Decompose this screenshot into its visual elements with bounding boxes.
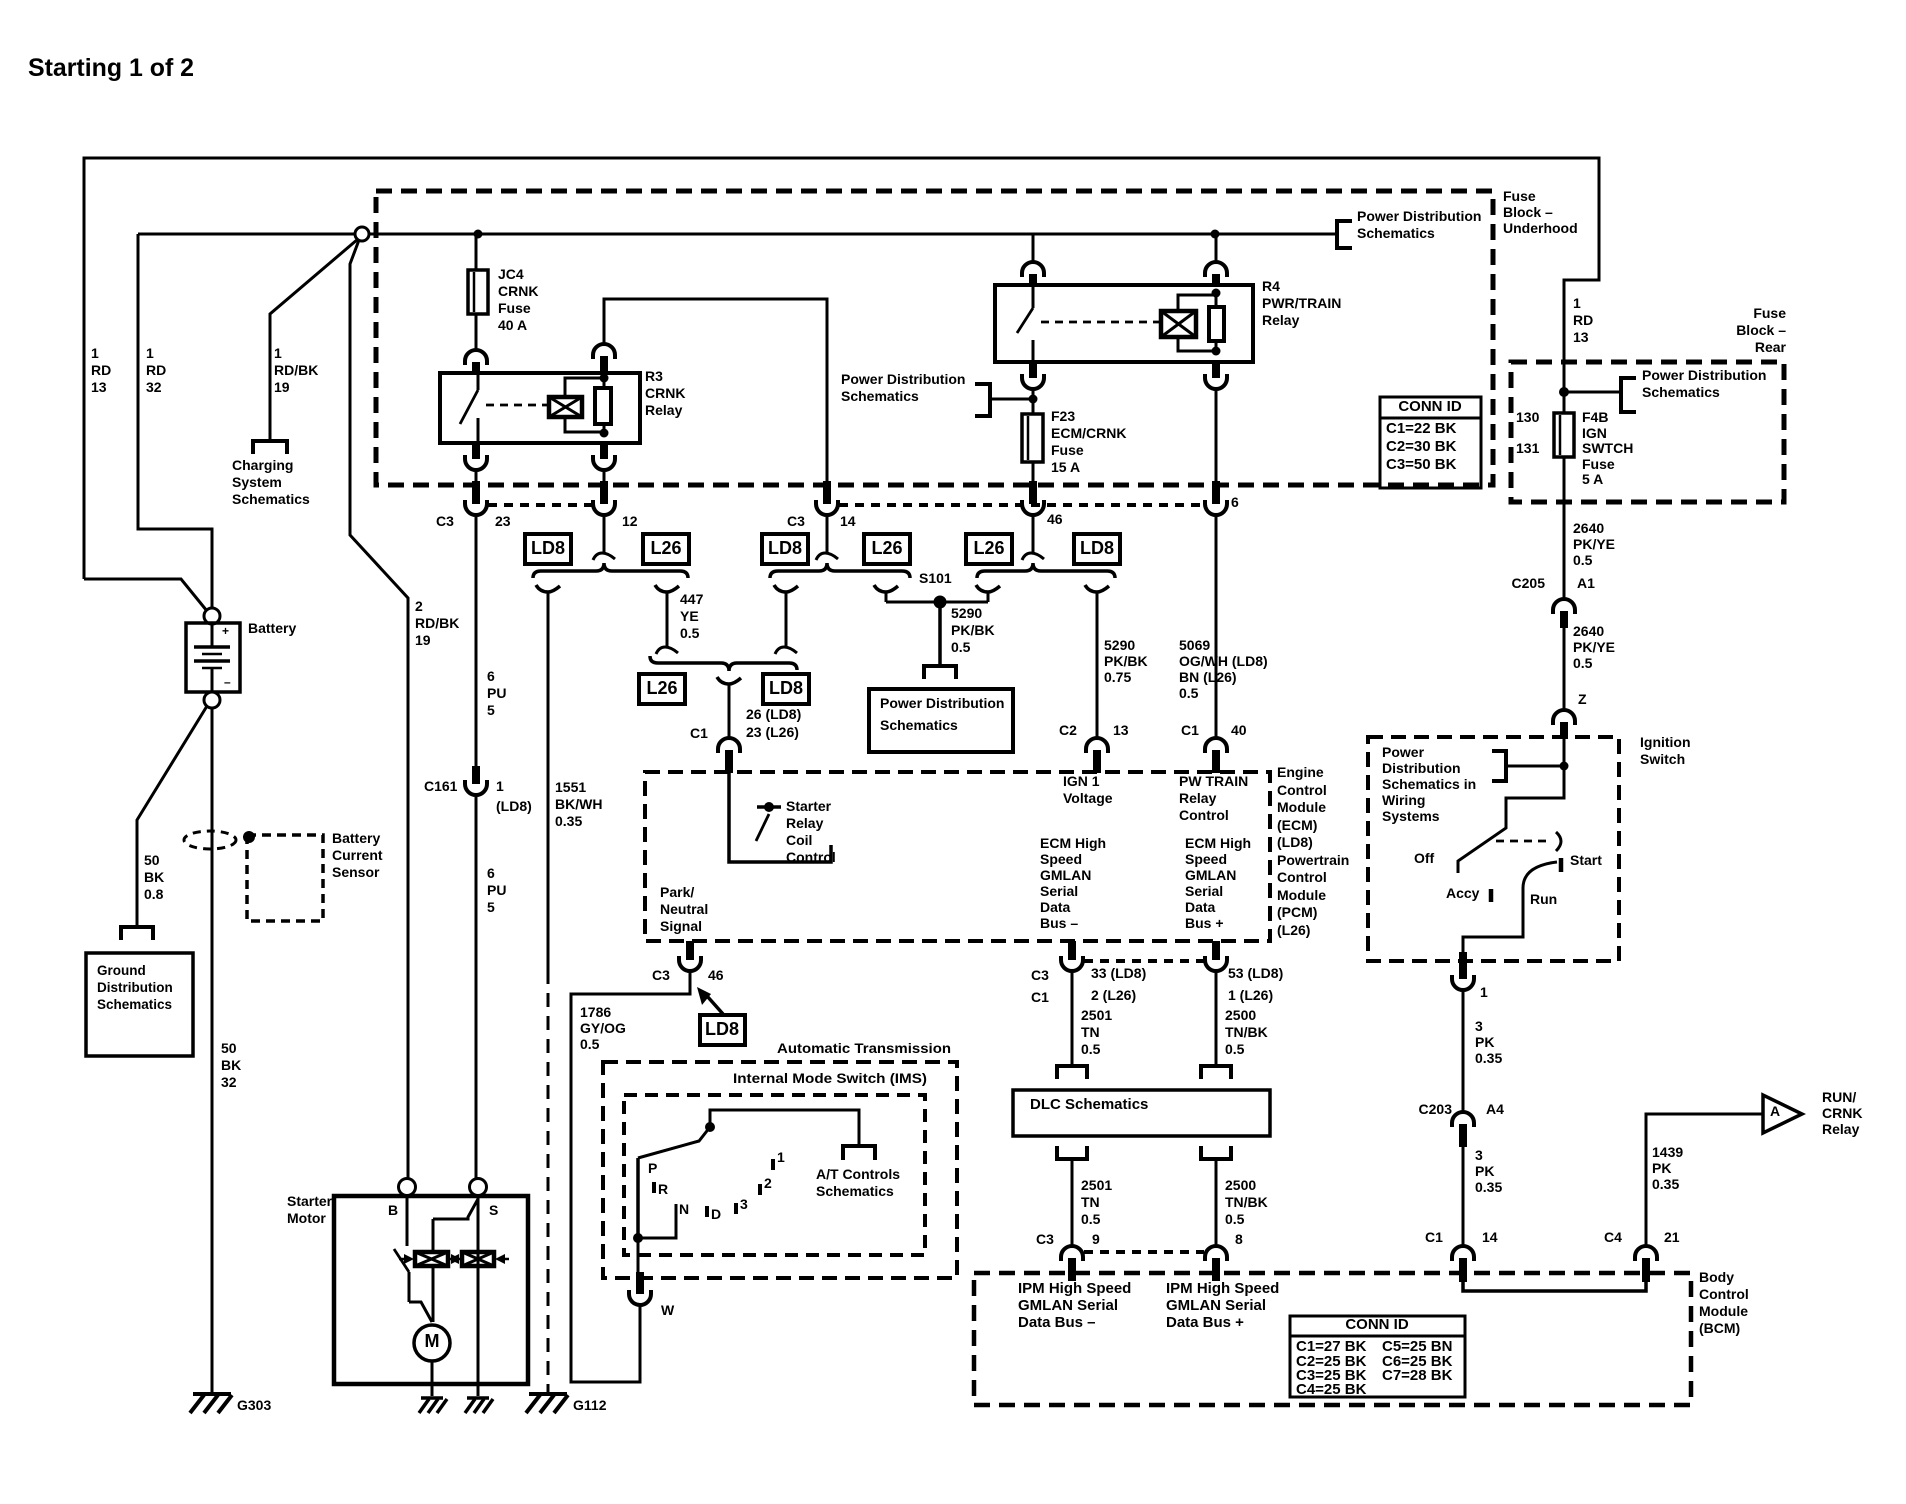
table CONN ID (underhood) (1380, 397, 1481, 488)
connector C161 (cup) (465, 780, 487, 795)
box Internal Mode Switch (dashed) (624, 1095, 925, 1255)
svg-text:ECM High: ECM High (1185, 835, 1251, 851)
box Starter Motor (334, 1196, 528, 1384)
svg-text:S101: S101 (919, 570, 952, 586)
svg-text:RD: RD (146, 362, 166, 378)
svg-text:2501: 2501 (1081, 1007, 1112, 1023)
svg-text:9: 9 (1092, 1231, 1100, 1247)
relay R3 switch (460, 373, 548, 443)
off-page bracket Ground Distribution (121, 927, 153, 940)
svg-text:32: 32 (146, 379, 162, 395)
svg-text:CONN ID: CONN ID (1398, 398, 1462, 415)
svg-text:2 (L26): 2 (L26) (1091, 987, 1136, 1003)
label Battery Current Sensor (332, 830, 383, 880)
ground starter motor S (465, 1384, 493, 1413)
svg-text:Module: Module (1277, 887, 1326, 903)
svg-text:6: 6 (487, 668, 495, 684)
tag box LD8 at x=762 (762, 534, 808, 564)
svg-text:Current: Current (332, 847, 383, 863)
svg-text:(LD8): (LD8) (496, 798, 532, 814)
label Engine Control Module (ECM) (1277, 764, 1349, 938)
svg-text:Schematics: Schematics (816, 1183, 894, 1199)
svg-text:A: A (1770, 1103, 1780, 1119)
connector W (pin) (636, 1272, 644, 1294)
label Battery (248, 620, 296, 636)
svg-text:TN/BK: TN/BK (1225, 1024, 1268, 1040)
svg-text:A1: A1 (1577, 575, 1595, 591)
svg-text:PWR/TRAIN: PWR/TRAIN (1262, 295, 1341, 311)
svg-text:Underhood: Underhood (1503, 220, 1578, 236)
connector C1 pin 40 (pin) (1212, 750, 1220, 773)
label Off (1414, 850, 1435, 866)
tag box L26 at x=643 (643, 534, 689, 564)
svg-text:TN/BK: TN/BK (1225, 1194, 1268, 1210)
label 1439 PK 0.35 (1652, 1144, 1683, 1192)
svg-text:OG/WH (LD8): OG/WH (LD8) (1179, 653, 1268, 669)
brace merge to C1 (650, 656, 797, 671)
label 33 (LD8) 2 (L26) (1091, 965, 1146, 1003)
svg-text:Schematics in: Schematics in (1382, 776, 1476, 792)
svg-text:CRNK: CRNK (498, 283, 538, 299)
wire pin 12 tail (593, 515, 615, 560)
svg-text:50: 50 (221, 1040, 237, 1056)
label C3 C1 (dlc) (1031, 967, 1049, 1005)
label C203 A4 (1419, 1101, 1505, 1117)
svg-text:26 (LD8): 26 (LD8) (746, 706, 801, 722)
wire 1 RD/BK 19 to charging system (270, 239, 358, 441)
connector R4 pin87 (cup) (1022, 374, 1044, 389)
svg-text:Control: Control (786, 849, 836, 865)
connector C4 pin 21 (pin) (1642, 1258, 1650, 1282)
ground G303 (190, 1394, 271, 1413)
svg-text:53 (LD8): 53 (LD8) (1228, 965, 1283, 981)
goalpost DLC bottom left (1057, 1146, 1087, 1159)
svg-text:C161: C161 (424, 778, 458, 794)
svg-text:C4: C4 (1604, 1229, 1622, 1245)
connector R4 coil out (pin) (1212, 362, 1220, 378)
svg-text:LD8: LD8 (769, 678, 803, 698)
wire R3 coil to block edge (603, 470, 606, 481)
starter S blade (433, 1199, 478, 1252)
svg-text:1: 1 (1480, 984, 1488, 1000)
svg-text:Automatic Transmission: Automatic Transmission (777, 1040, 951, 1056)
ignition switch blade (1458, 766, 1564, 873)
tag box LD8 with arrow (697, 987, 745, 1045)
wire F23 to block edge (1032, 462, 1035, 481)
connector R3 coil feed (cup) (593, 344, 615, 359)
label Power Distribution Schematics (F23) (841, 371, 965, 404)
svg-text:1: 1 (91, 345, 99, 361)
label Z (1578, 691, 1587, 707)
connector C203 (cup) (1452, 1112, 1474, 1127)
svg-text:Relay: Relay (786, 815, 824, 831)
relay R4 coil resistor (1209, 289, 1224, 356)
svg-text:Fuse: Fuse (498, 300, 531, 316)
label Power Distribution Schematics (top) (1357, 208, 1481, 241)
table CONN ID (BCM) (1290, 1316, 1465, 1398)
connector R4 pin87 (pin) (1029, 362, 1037, 378)
label 23 (495, 513, 511, 529)
svg-text:G303: G303 (237, 1397, 271, 1413)
svg-text:System: System (232, 474, 282, 490)
junction R4 coil feed (1211, 230, 1220, 239)
svg-text:0.5: 0.5 (1573, 655, 1593, 671)
relay R4 coil (1161, 295, 1215, 351)
connector C3 pin 14 (pin) (823, 481, 831, 504)
wire pin 14 tail (816, 515, 838, 560)
starter terminal B (399, 1179, 416, 1196)
label JC4 CRNK Fuse 40 A (498, 266, 538, 333)
node S101 (886, 596, 988, 609)
svg-text:Z: Z (1578, 691, 1587, 707)
svg-text:C4=25 BK: C4=25 BK (1296, 1381, 1367, 1398)
svg-text:L26: L26 (646, 678, 677, 698)
title (28, 54, 194, 82)
svg-text:6: 6 (1231, 494, 1239, 510)
svg-text:C205: C205 (1512, 575, 1546, 591)
svg-text:Accy: Accy (1446, 885, 1480, 901)
ims labels (648, 1149, 785, 1222)
fuse F4B IGN SWTCH 5A (1554, 413, 1574, 457)
box Power Distribution Schematics (S101) (869, 689, 1013, 752)
svg-text:CONN ID: CONN ID (1345, 1316, 1409, 1333)
svg-text:Motor: Motor (287, 1210, 326, 1226)
svg-text:Schematics: Schematics (841, 388, 919, 404)
svg-text:Fuse: Fuse (1051, 442, 1084, 458)
connector C3 pin 23 (pin) (472, 481, 480, 504)
label C3 9 (1036, 1231, 1100, 1247)
connector C3 pin 14 (cup) (816, 500, 838, 515)
connector line BCM (dotted) (1084, 1250, 1204, 1254)
starter winding 2 (446, 1252, 509, 1266)
svg-text:0.5: 0.5 (1225, 1041, 1245, 1057)
svg-text:23: 23 (495, 513, 511, 529)
ground G112 (526, 1394, 607, 1413)
svg-text:IPM High Speed: IPM High Speed (1018, 1280, 1131, 1297)
run/crnk relay triangle (1763, 1095, 1802, 1133)
svg-text:LD8: LD8 (531, 538, 565, 558)
svg-text:M: M (425, 1331, 440, 1351)
svg-text:L26: L26 (650, 538, 681, 558)
svg-text:LD8: LD8 (1080, 538, 1114, 558)
svg-text:Control: Control (1699, 1286, 1749, 1302)
svg-text:Relay: Relay (1262, 312, 1300, 328)
junction JC4 feed (474, 230, 483, 239)
svg-text:P: P (648, 1160, 657, 1176)
brace splice LD8/L26 (pin 14) (770, 563, 910, 578)
svg-text:Bus +: Bus + (1185, 915, 1224, 931)
wire 2501 TN upper (1071, 971, 1074, 1065)
svg-text:Battery: Battery (332, 830, 380, 846)
svg-text:CRNK: CRNK (1822, 1105, 1862, 1121)
svg-text:PW TRAIN: PW TRAIN (1179, 773, 1248, 789)
svg-text:Charging: Charging (232, 457, 293, 473)
label C1 14 (1425, 1229, 1498, 1245)
svg-text:RD/BK: RD/BK (415, 615, 459, 631)
label A/T Controls Schematics (816, 1166, 900, 1199)
connector C161 (pin) (472, 766, 480, 784)
svg-text:Fuse: Fuse (1753, 305, 1786, 321)
svg-text:3: 3 (1475, 1018, 1483, 1034)
svg-text:S: S (489, 1202, 498, 1218)
svg-text:2500: 2500 (1225, 1007, 1256, 1023)
wire 1 RD 32 (138, 234, 212, 608)
connector R4 pin30 (pin) (1029, 274, 1037, 286)
label 1 RD 13 (right) (1573, 295, 1593, 345)
ims contact R (652, 1182, 656, 1193)
wire battery positive from outer loop (84, 579, 207, 611)
label C3 (left) (436, 513, 454, 529)
motor M (414, 1325, 450, 1361)
svg-text:15 A: 15 A (1051, 459, 1080, 475)
svg-text:2: 2 (764, 1175, 772, 1191)
node splice (open) on bus (355, 227, 369, 241)
label Charging System Schematics (232, 457, 310, 507)
svg-text:C1: C1 (1031, 989, 1049, 1005)
label C2 13 (1059, 722, 1129, 738)
starter S wire (477, 1196, 480, 1384)
label Fuse Block - Underhood (1503, 188, 1578, 236)
svg-text:Off: Off (1414, 850, 1435, 866)
svg-text:Control: Control (1277, 869, 1327, 885)
svg-text:RUN/: RUN/ (1822, 1089, 1856, 1105)
wire 6 PU 5 (C161 to starter S) (475, 795, 478, 1178)
svg-text:C1=22 BK: C1=22 BK (1386, 420, 1457, 437)
svg-text:PK: PK (1475, 1163, 1494, 1179)
wire pnp branch (LD8) (774, 585, 798, 654)
svg-text:46: 46 (1047, 511, 1063, 527)
svg-text:Starter: Starter (786, 798, 832, 814)
bcm internal link (1463, 1282, 1646, 1291)
svg-text:0.5: 0.5 (951, 639, 971, 655)
svg-text:LD8: LD8 (768, 538, 802, 558)
svg-text:C3: C3 (436, 513, 454, 529)
svg-text:PK: PK (1652, 1160, 1671, 1176)
svg-text:13: 13 (1573, 329, 1589, 345)
off-page bracket to Power Distribution Schematics (top) (1337, 221, 1352, 248)
svg-text:Signal: Signal (660, 918, 702, 934)
ignition Run output (1463, 888, 1523, 952)
box ECM (dashed) (645, 772, 1270, 941)
connector pin 12 (pin) (600, 481, 608, 504)
wire 2500 TN/BK upper (1215, 971, 1218, 1065)
ims wiper and bus (633, 1110, 859, 1243)
connector pin 12 (cup) (593, 500, 615, 515)
svg-text:2640: 2640 (1573, 520, 1604, 536)
svg-text:D: D (711, 1206, 721, 1222)
svg-text:0.5: 0.5 (1573, 552, 1593, 568)
connector R4 coil feed (pin) (1212, 274, 1220, 287)
connector C205 (pin) (1560, 611, 1568, 628)
svg-text:Control: Control (1277, 782, 1327, 798)
svg-text:14: 14 (1482, 1229, 1498, 1245)
svg-text:Starter: Starter (287, 1193, 333, 1209)
ignition feed (1560, 739, 1569, 771)
svg-text:19: 19 (274, 379, 290, 395)
svg-text:2640: 2640 (1573, 623, 1604, 639)
starter winding1 tail (432, 1266, 435, 1322)
battery positive terminal (204, 608, 220, 624)
svg-text:TN: TN (1081, 1024, 1100, 1040)
wire 5290 PK/BK 0.75 (1085, 585, 1109, 738)
svg-text:8: 8 (1235, 1231, 1243, 1247)
label 6 (1231, 494, 1239, 510)
svg-text:Block –: Block – (1736, 322, 1786, 338)
label 3 PK 0.35 (upper) (1475, 1018, 1502, 1066)
wire 2 RD/BK 19 to starter motor B (350, 240, 408, 1178)
svg-text:Power Distribution: Power Distribution (841, 371, 965, 387)
label PW TRAIN Relay Control (1179, 773, 1248, 823)
starter solenoid switch (394, 1249, 432, 1322)
relay R4 switch (1017, 286, 1160, 362)
wire pin 46 tail (1022, 515, 1044, 560)
label Power Distribution Schematics in Wiring Systems (1382, 744, 1476, 824)
label 2501 TN 0.5 (lower) (1081, 1177, 1112, 1227)
label ECM High Speed GMLAN Serial Data Bus - (1040, 835, 1106, 931)
wire 3 PK 0.35 (upper) (1462, 990, 1465, 1112)
connector C1 ECM (cup) (718, 738, 740, 753)
svg-text:Distribution: Distribution (97, 980, 173, 995)
wire 447 YE 0.5 (655, 585, 679, 654)
svg-text:12: 12 (622, 513, 638, 529)
svg-text:3: 3 (1475, 1147, 1483, 1163)
svg-text:Schematics: Schematics (232, 491, 310, 507)
ims contact D (705, 1206, 709, 1217)
ignition Run arc (1523, 862, 1557, 907)
svg-text:50: 50 (144, 852, 160, 868)
svg-text:Data Bus –: Data Bus – (1018, 1314, 1096, 1331)
label C1 (ECM) (690, 725, 708, 741)
wire bus to R4 coil (1215, 234, 1218, 262)
svg-text:ECM/CRNK: ECM/CRNK (1051, 425, 1126, 441)
svg-text:0.35: 0.35 (555, 813, 582, 829)
connector R4 coil out (cup) (1205, 374, 1227, 389)
svg-text:Sensor: Sensor (332, 864, 380, 880)
wire brace to C1 (717, 677, 741, 738)
svg-text:14: 14 (840, 513, 856, 529)
svg-text:Body: Body (1699, 1269, 1734, 1285)
svg-text:BK: BK (144, 869, 164, 885)
svg-text:Module: Module (1699, 1303, 1748, 1319)
svg-text:32: 32 (221, 1074, 237, 1090)
svg-text:0.5: 0.5 (1081, 1041, 1101, 1057)
wire R3 coil feed from pin 14 column (604, 299, 827, 481)
connector C203 (pin) (1459, 1124, 1467, 1147)
svg-text:Internal Mode Switch (IMS): Internal Mode Switch (IMS) (733, 1070, 927, 1086)
svg-text:B: B (388, 1202, 398, 1218)
connector C3 46 out (cup) (679, 956, 701, 971)
junction F23 node (1029, 395, 1038, 404)
label C1 40 (1181, 722, 1247, 738)
svg-text:Distribution: Distribution (1382, 760, 1461, 776)
svg-text:–: – (224, 675, 231, 689)
connector C3/C1 dlc- (pin) (1068, 941, 1076, 960)
svg-text:5290: 5290 (1104, 637, 1135, 653)
svg-text:Neutral: Neutral (660, 901, 708, 917)
starter terminal S (470, 1179, 487, 1196)
svg-text:Power Distribution: Power Distribution (880, 695, 1004, 711)
svg-text:(L26): (L26) (1277, 922, 1310, 938)
label 1786 GY/OG 0.5 (580, 1004, 626, 1052)
fuse F23 ECM/CRNK 15A (1022, 414, 1043, 462)
svg-text:Ignition: Ignition (1640, 734, 1691, 750)
label 8 (1235, 1231, 1243, 1247)
svg-text:Data Bus +: Data Bus + (1166, 1314, 1244, 1331)
svg-text:40 A: 40 A (498, 317, 527, 333)
label 1 RD/BK 19 (274, 345, 318, 395)
svg-text:PK/YE: PK/YE (1573, 639, 1615, 655)
svg-text:GMLAN: GMLAN (1040, 867, 1091, 883)
svg-text:130: 130 (1516, 409, 1540, 425)
svg-text:Power Distribution: Power Distribution (1642, 367, 1766, 383)
wire S101 right branch (976, 585, 1000, 602)
svg-text:Coil: Coil (786, 832, 812, 848)
svg-text:PK/BK: PK/BK (951, 622, 995, 638)
label C3 46 out (652, 967, 724, 983)
svg-text:PK/YE: PK/YE (1573, 536, 1615, 552)
label 447 YE 0.5 (680, 591, 704, 641)
svg-text:(LD8): (LD8) (1277, 834, 1313, 850)
svg-text:C7=28 BK: C7=28 BK (1382, 1367, 1453, 1384)
battery negative terminal (204, 692, 220, 708)
svg-text:C203: C203 (1419, 1101, 1453, 1117)
connector pin 6 (cup) (1205, 500, 1227, 515)
svg-text:Schematics: Schematics (880, 717, 958, 733)
label 2500 TN/BK 0.5 (lower) (1225, 1177, 1268, 1227)
svg-text:Module: Module (1277, 799, 1326, 815)
svg-text:Serial: Serial (1040, 883, 1078, 899)
svg-text:0.8: 0.8 (144, 886, 164, 902)
connector pin 6 (pin) (1212, 481, 1220, 504)
wire 1786 GY/OG 0.5 (571, 971, 690, 1382)
svg-text:Data: Data (1185, 899, 1216, 915)
svg-text:(PCM): (PCM) (1277, 904, 1317, 920)
svg-text:Relay: Relay (1822, 1121, 1860, 1137)
wire 50 BK 32 to G303 (211, 708, 214, 1394)
brace splice LD8/L26 (pin 12) (533, 563, 688, 578)
off-page bracket A/T Controls (843, 1146, 875, 1160)
svg-text:Park/: Park/ (660, 884, 694, 900)
wire IMS common to W (637, 1238, 640, 1272)
tag box L26 at x=966 (966, 534, 1012, 564)
connector pin 46 (cup) (1022, 500, 1044, 515)
svg-text:Speed: Speed (1185, 851, 1227, 867)
motor ground wire (431, 1361, 434, 1396)
wire 3 PK 0.35 (lower) (1462, 1147, 1465, 1246)
ground starter motor M (419, 1398, 447, 1413)
wire R4 out to F23 (1032, 389, 1035, 414)
svg-text:C3: C3 (1031, 967, 1049, 983)
connector C3/C1 dlc+ (cup) (1205, 956, 1227, 971)
label F23 ECM/CRNK Fuse 15 A (1051, 408, 1126, 475)
label 26 (LD8) 23 (L26) (746, 706, 801, 740)
fuse JC4 CRNK 40A (468, 270, 488, 314)
svg-text:1 (L26): 1 (L26) (1228, 987, 1273, 1003)
svg-text:SWTCH: SWTCH (1582, 440, 1633, 456)
svg-text:BK/WH: BK/WH (555, 796, 602, 812)
svg-text:6: 6 (487, 865, 495, 881)
svg-text:Relay: Relay (645, 402, 683, 418)
wire C205 to Z (1563, 628, 1566, 710)
box Ground Distribution Schematics (86, 953, 193, 1056)
relay R3 box (440, 373, 640, 443)
connector R3 pin30 (pin) (472, 362, 480, 374)
svg-text:F23: F23 (1051, 408, 1075, 424)
connector pin 8 (cup) (1205, 1246, 1227, 1261)
connector W (cup) (629, 1290, 651, 1305)
svg-text:Schematics: Schematics (1642, 384, 1720, 400)
connector pin 8 (pin) (1212, 1258, 1220, 1281)
